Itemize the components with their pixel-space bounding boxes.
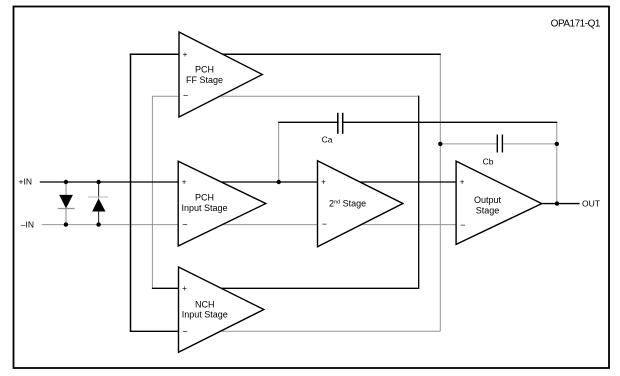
wire: bottom continuation (gray) xyxy=(220,330,440,332)
svg-text:Stage: Stage xyxy=(476,206,500,216)
svg-text:+: + xyxy=(460,178,465,187)
node: -IN rail / D2 junction xyxy=(96,222,100,226)
op-amp U4 2nd Stage xyxy=(318,161,403,247)
diode D1 (anode up) xyxy=(58,182,75,225)
svg-text:+IN: +IN xyxy=(19,177,32,187)
svg-text:Ca: Ca xyxy=(322,135,333,145)
wire: gray vertical FF- to NCH+ xyxy=(151,96,153,289)
svg-text:+: + xyxy=(182,178,187,187)
svg-text:NCH: NCH xyxy=(195,299,215,309)
svg-text:PCH: PCH xyxy=(195,65,214,75)
svg-text:FF Stage: FF Stage xyxy=(186,75,223,85)
wire: outer loop right vertical (gray) xyxy=(439,54,441,331)
wire: Cb horizontal (gray) xyxy=(440,143,557,145)
svg-text:OUT: OUT xyxy=(582,199,600,209)
svg-text:–IN: –IN xyxy=(21,220,34,230)
svg-text:Input Stage: Input Stage xyxy=(181,203,227,213)
node: Cb right xyxy=(555,142,559,146)
svg-text:+: + xyxy=(183,50,188,59)
svg-text:−: − xyxy=(183,91,188,101)
node: +IN rail / D2 junction xyxy=(96,180,100,184)
svg-text:−: − xyxy=(182,220,187,230)
svg-text:+: + xyxy=(182,284,187,293)
svg-text:PCH: PCH xyxy=(195,193,214,203)
node: +IN rail / D1 junction xyxy=(64,180,68,184)
op-amp U2 PCH Input Stage xyxy=(178,161,266,246)
wire: Ca up-leg from 2nd stage input node (gray) xyxy=(278,122,280,182)
wire: -IN rail (gray, to Output Stage minus) xyxy=(42,224,456,226)
wire: FF minus horizontal (gray) xyxy=(152,95,418,97)
wire: Ca horizontal (black) xyxy=(278,121,557,123)
op-amp U3 NCH Input Stage xyxy=(179,267,264,352)
wire: outer loop top horizontal xyxy=(130,53,441,55)
wire: outer loop left vertical xyxy=(130,53,132,332)
wire: NCH plus horizontal xyxy=(152,287,419,289)
svg-text:OPA171-Q1: OPA171-Q1 xyxy=(551,18,601,29)
svg-text:Cb: Cb xyxy=(483,156,494,166)
diode D2 (anode down) xyxy=(88,182,108,225)
node: Cb left xyxy=(438,142,442,146)
svg-text:−: − xyxy=(460,220,465,230)
wire: OUT wire xyxy=(542,203,580,205)
node: 2nd stage input xyxy=(277,180,281,184)
svg-text:−: − xyxy=(322,219,327,229)
svg-text:+: + xyxy=(321,178,326,187)
wire: middle vertical (2nd stage box right) xyxy=(418,96,420,289)
capacitor Cb xyxy=(497,135,502,153)
wire: +IN rail (black, to Output Stage plus) xyxy=(40,181,456,183)
wire: Ca down-leg to OUT node (gray) xyxy=(556,122,558,203)
wire: NCH minus horizontal (black part) xyxy=(131,330,221,332)
op-amp U5 Output Stage xyxy=(456,161,542,244)
capacitor Ca xyxy=(338,113,343,134)
svg-text:Input Stage: Input Stage xyxy=(182,310,228,320)
node: -IN rail / D1 junction xyxy=(64,222,68,226)
op-amp U1 PCH FF Stage xyxy=(179,32,262,117)
node: OUT xyxy=(555,201,559,205)
svg-text:Output: Output xyxy=(474,195,502,205)
svg-text:−: − xyxy=(182,326,187,336)
